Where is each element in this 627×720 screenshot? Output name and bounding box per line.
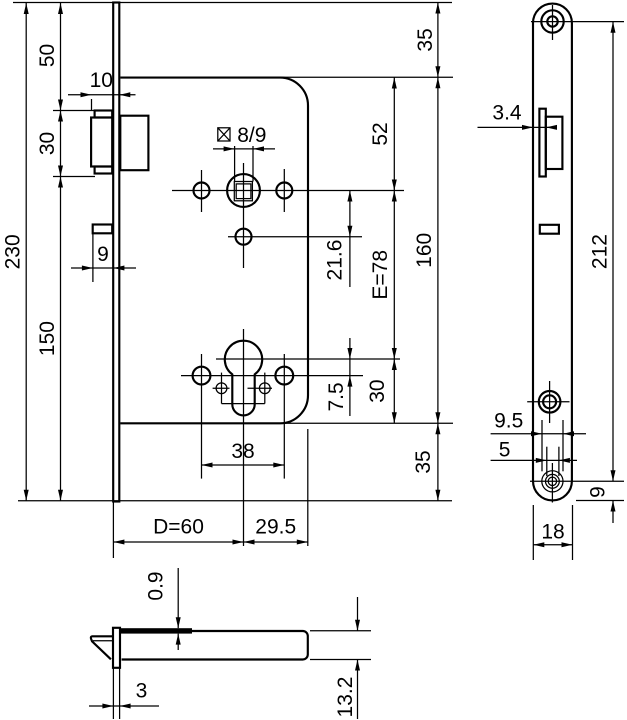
dimension 35top/160/35bottom line: [437, 3, 439, 501]
profile cylinder hole: [225, 341, 262, 416]
lower chord line between small holes: [222, 403, 265, 405]
hub square 8mm: [236, 184, 251, 199]
top screw hole outer: [541, 10, 563, 32]
hub square 9mm: [234, 182, 252, 201]
top screw hole inner: [547, 16, 557, 26]
latch plate edge band (0.9 step): [119, 628, 192, 633]
svg-text:212: 212: [588, 234, 611, 269]
svg-text:30: 30: [36, 132, 59, 155]
dimension 10 extension: [91, 99, 93, 110]
svg-text:5: 5: [499, 439, 511, 462]
latch bevel wedge inner line: [93, 640, 112, 642]
cylinder centerline horizontal: [216, 358, 400, 360]
latch plate (side view): [539, 109, 545, 177]
fixing holes centerline horizontal: [181, 375, 363, 377]
latch bar (top view): [122, 631, 308, 660]
hole left of hub: [194, 183, 210, 199]
dimension 9 (side) line below: [612, 501, 614, 524]
svg-text:150: 150: [36, 321, 59, 356]
dimension 5 line: [491, 459, 577, 461]
dimension 7.5 line: [349, 338, 351, 416]
hub centerline horizontal: [172, 190, 404, 192]
fixing hole left (cylinder level): [193, 367, 211, 385]
faceplate section extension lines down: [112, 668, 114, 719]
dimension 8/9 square symbol: [218, 128, 230, 141]
dimension 18 extensions: [532, 505, 534, 560]
dimension 230 line: [25, 3, 27, 501]
dimension 3.4 line: [478, 126, 556, 128]
dimension 18 line: [533, 544, 572, 546]
small holes centerline horizontal right: [248, 387, 273, 389]
dimension 13.2 line below: [357, 660, 359, 720]
svg-text:35: 35: [412, 450, 435, 473]
notch (side view): [540, 225, 559, 234]
dimension 0.9 line below: [177, 634, 179, 650]
dimension 8/9 line: [213, 148, 275, 150]
extension line latch top: [53, 110, 95, 112]
svg-text:9.5: 9.5: [494, 409, 523, 432]
bottom screw hole inner: [548, 477, 556, 485]
small hole right centerline: [264, 373, 266, 404]
svg-text:35: 35: [414, 28, 437, 51]
right hole centerline: [283, 169, 285, 212]
mid screw hole outer: [539, 391, 561, 413]
latch bolt bottom lip (left of faceplate): [95, 167, 113, 174]
mid screw hole inner: [543, 395, 556, 408]
dimension 212 line: [612, 22, 614, 482]
top screw hole centerline vertical: [552, 5, 554, 40]
extension line case top right: [280, 76, 453, 78]
svg-text:21.6: 21.6: [324, 240, 347, 281]
svg-text:18: 18: [541, 520, 564, 543]
dimension 9 line: [71, 267, 136, 269]
svg-text:38: 38: [231, 440, 254, 463]
latch bolt head (protruding right of faceplate): [120, 116, 148, 171]
mid screw hole centerline vertical: [549, 381, 551, 423]
right fixing hole centerline vertical: [283, 354, 285, 479]
small hole left: [216, 383, 227, 394]
latch bevel wedge top edge: [91, 636, 113, 659]
svg-text:13.2: 13.2: [334, 677, 357, 718]
follower hub circle: [227, 174, 260, 207]
bottom screw hole middle: [546, 474, 560, 488]
dimension 50/30/150 line: [60, 3, 62, 501]
svg-text:230: 230: [1, 234, 24, 269]
svg-text:160: 160: [413, 233, 436, 268]
hub centerline vertical: [243, 163, 245, 268]
extension line faceplate bottom: [18, 500, 452, 502]
extension line strip bottom right: [576, 500, 624, 502]
dimension 0.9 line above: [177, 568, 179, 628]
dimension 5 extensions: [546, 447, 548, 476]
dimension 8/9 extensions: [234, 146, 236, 182]
extension line top screw center right: [531, 21, 624, 23]
svg-text:E=78: E=78: [369, 250, 392, 300]
small hole left centerline: [221, 373, 223, 404]
svg-text:52: 52: [369, 122, 392, 145]
dimension D=60 / 29.5 line: [113, 541, 307, 543]
svg-text:8/9: 8/9: [237, 124, 266, 147]
svg-text:D=60: D=60: [153, 516, 204, 539]
dimension 10 line: [68, 94, 136, 96]
faceplate (front view): [113, 3, 119, 502]
svg-text:9: 9: [587, 486, 610, 498]
retaining notch on faceplate: [93, 225, 113, 234]
bottom screw hole centerline horizontal / extension for 212+9: [530, 480, 624, 482]
svg-text:0.9: 0.9: [145, 571, 168, 600]
mid screw hole centerline horizontal: [527, 401, 569, 403]
latch bolt top lip (left of faceplate): [95, 111, 113, 118]
svg-text:29.5: 29.5: [255, 516, 296, 539]
svg-text:30: 30: [366, 379, 389, 402]
svg-text:10: 10: [90, 69, 113, 92]
dimension 38 line: [202, 464, 285, 466]
dimension 13.2 line above: [357, 597, 359, 631]
bottom screw hole outer: [542, 471, 563, 492]
dimension 9.5 line: [491, 433, 586, 435]
bottom screw hole centerline vertical: [551, 463, 553, 503]
small holes centerline horizontal left: [213, 387, 230, 389]
dimension 9 extension: [92, 233, 94, 282]
left fixing hole centerline vertical: [201, 354, 203, 479]
hole below hub: [236, 229, 252, 245]
dimension 3 line: [89, 705, 159, 707]
extension case right edge down: [307, 429, 309, 546]
fixing hole right (cylinder level): [275, 367, 293, 385]
extension line latch bottom: [53, 176, 95, 178]
left hole centerline: [201, 170, 203, 212]
svg-text:9: 9: [97, 243, 109, 266]
extension for D=60 below faceplate: [112, 503, 114, 559]
dimension 9.5 extensions: [541, 420, 543, 471]
small hole right: [259, 383, 270, 394]
faceplate section: [113, 628, 120, 668]
below-hole centerline horizontal: [228, 236, 362, 238]
lock case outline: [120, 78, 308, 424]
svg-text:7.5: 7.5: [325, 382, 348, 411]
extension line top (y=2.5): [13, 2, 452, 4]
svg-text:3.4: 3.4: [492, 101, 522, 124]
dimension 21.6 line: [349, 191, 351, 288]
hole right of hub: [276, 183, 292, 199]
cylinder centerline vertical: [243, 329, 245, 546]
extension line case bottom right: [280, 422, 453, 424]
dimension 52/E78/30 line: [393, 78, 395, 424]
svg-text:50: 50: [36, 44, 59, 67]
latch bolt body (left of faceplate): [91, 118, 112, 167]
svg-text:3: 3: [136, 680, 148, 703]
latch body (side view): [546, 117, 563, 169]
strip outline: [533, 4, 572, 501]
dimension 13.2 extensions: [310, 630, 371, 632]
